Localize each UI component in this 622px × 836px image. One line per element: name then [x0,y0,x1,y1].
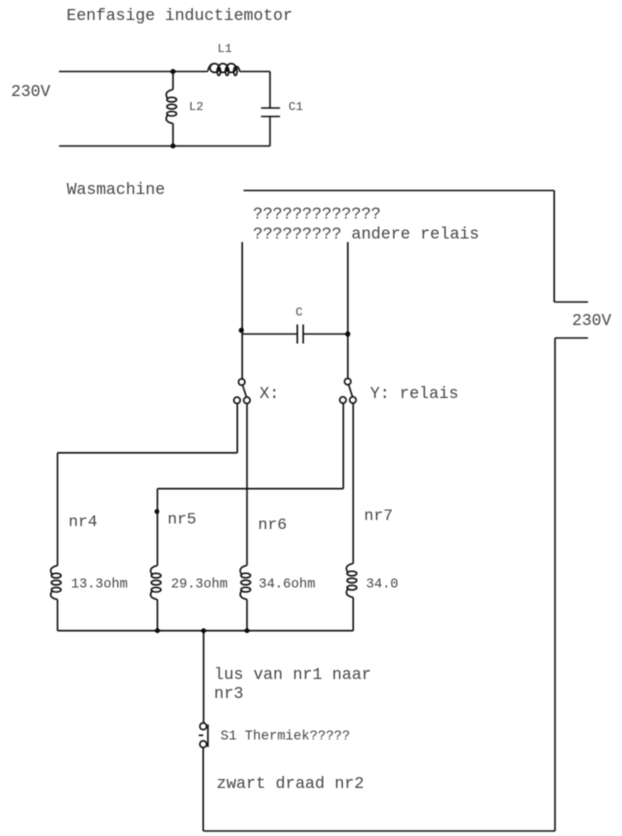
svg-text:nr6: nr6 [258,516,287,534]
svg-text:zwart draad nr2: zwart draad nr2 [217,774,365,793]
svg-text:34.0: 34.0 [366,578,398,593]
svg-text:?????????????: ????????????? [253,204,381,223]
svg-text:Wasmachine: Wasmachine [67,180,165,199]
svg-text:34.6ohm: 34.6ohm [259,578,316,593]
svg-text:C1: C1 [289,100,303,114]
svg-text:lus van nr1 naar: lus van nr1 naar [214,665,371,684]
svg-text:L1: L1 [218,42,232,56]
svg-text:nr5: nr5 [168,511,197,529]
svg-text:nr3: nr3 [214,684,244,703]
svg-text:C: C [296,306,303,320]
svg-text:L2: L2 [189,100,203,114]
svg-text:Eenfasige inductiemotor: Eenfasige inductiemotor [67,6,293,25]
svg-text:230V: 230V [572,311,612,330]
svg-text:Y: relais: Y: relais [370,384,459,403]
svg-text:S1 Thermiek?????: S1 Thermiek????? [221,730,351,745]
svg-text:nr4: nr4 [69,513,98,531]
svg-text:????????? andere relais: ????????? andere relais [253,225,479,244]
svg-text:230V: 230V [11,82,51,101]
svg-text:X:: X: [260,384,280,403]
svg-text:nr7: nr7 [364,507,393,525]
svg-text:13.3ohm: 13.3ohm [71,578,128,593]
svg-text:29.3ohm: 29.3ohm [171,578,228,593]
